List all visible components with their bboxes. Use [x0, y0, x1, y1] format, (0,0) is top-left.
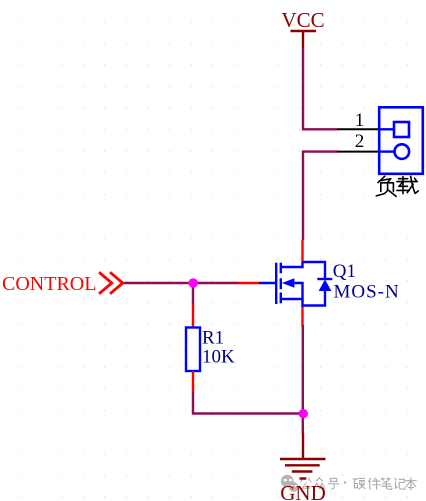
svg-text:1: 1 [355, 110, 365, 131]
watermark text 公众号·硬件笔记本 [301, 478, 416, 490]
wire connector pin 2 to Q1 drain [303, 152, 338, 240]
resistor R1 body [186, 328, 200, 372]
wire CONTROL to gate node [124, 282, 239, 284]
wire junction to R1 [192, 283, 194, 305]
ground GND symbol [280, 433, 326, 479]
wire Q1 source to ground [302, 325, 304, 434]
label 负载 (load) [376, 176, 418, 196]
svg-text:Q1: Q1 [333, 261, 356, 282]
svg-text:2: 2 [355, 131, 365, 152]
port CONTROL [2, 272, 123, 295]
power port VCC [281, 8, 324, 49]
connector pin 2 [337, 131, 380, 152]
junction node source/ground [299, 409, 308, 418]
svg-text:GND: GND [280, 481, 326, 501]
transistor Q1 MOS-N symbol [259, 262, 332, 306]
resistor R1 top pin [192, 305, 194, 328]
svg-text:CONTROL: CONTROL [2, 273, 96, 295]
transistor Q1 gate pin [238, 282, 260, 284]
wire R1 to ground rail [193, 392, 303, 414]
transistor Q1 drain pin [301, 240, 303, 263]
connector pin 1 [337, 110, 380, 131]
connector J1 (load) body [379, 107, 423, 174]
svg-text:VCC: VCC [281, 8, 324, 32]
svg-text:10K: 10K [202, 346, 235, 367]
junction node gate/R1 [189, 278, 198, 287]
transistor Q1 source pin [301, 306, 303, 327]
svg-text:MOS-N: MOS-N [334, 282, 400, 303]
wire VCC to connector pin 1 [303, 48, 338, 129]
watermark logo [281, 475, 299, 492]
resistor R1 bottom pin [192, 371, 194, 392]
